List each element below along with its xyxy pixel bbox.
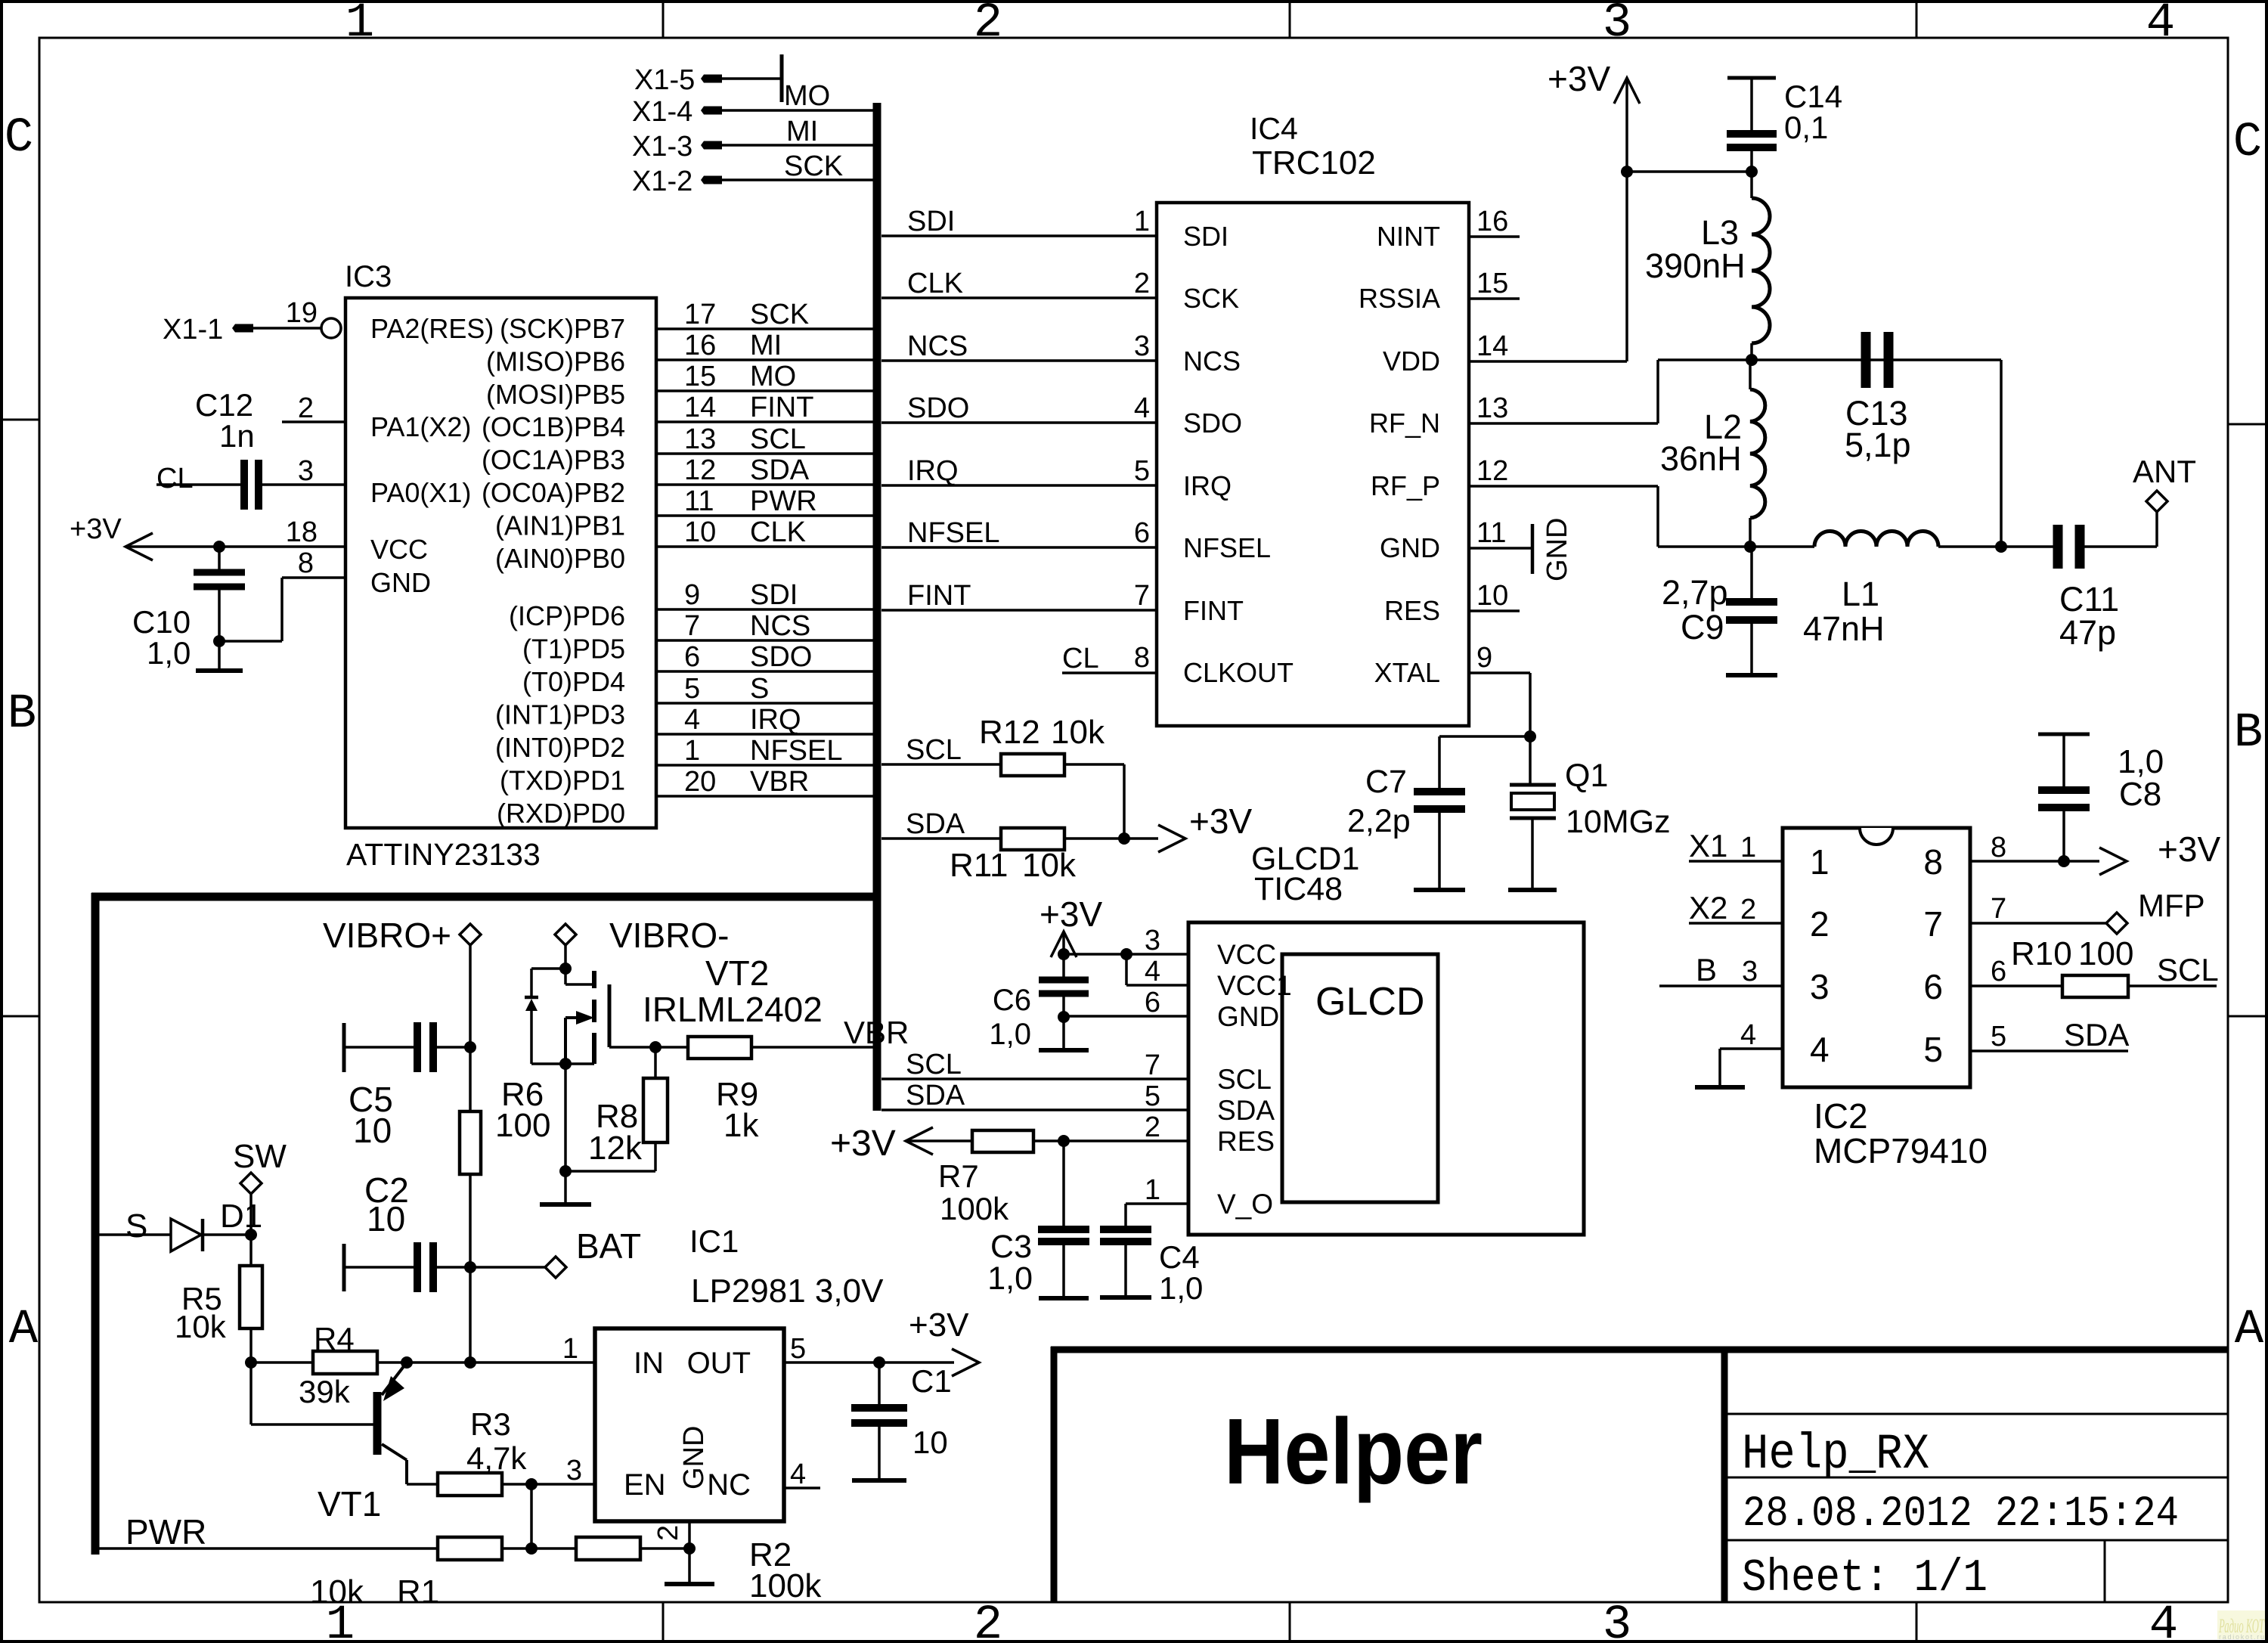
stub IC4 pin 16 NINT: [1469, 235, 1520, 238]
svg-text:4: 4: [1740, 1019, 1756, 1051]
svg-text:ANT: ANT: [2133, 454, 2196, 489]
transistor VT2 channel: [592, 971, 596, 988]
junction R12/R11 +3V: [1118, 832, 1130, 845]
wire X2 to IC2 pin 2: [1689, 922, 1783, 925]
svg-text:IC1: IC1: [689, 1223, 739, 1259]
wire +3V to R7: [906, 1139, 972, 1142]
svg-text:12: 12: [1476, 455, 1508, 487]
transistor VT1 collector: [382, 1444, 407, 1460]
wire IC3 pin 1 NFSEL to bus: [656, 764, 877, 767]
wire IC4 pin 9 XTAL to Q1: [1469, 671, 1530, 674]
svg-text:1: 1: [684, 735, 700, 767]
svg-text:1,0: 1,0: [147, 635, 191, 671]
svg-text:3: 3: [1145, 925, 1160, 956]
transistor VT1 base bar: [373, 1392, 382, 1455]
svg-text:4: 4: [1145, 956, 1160, 987]
svg-text:X2: X2: [1689, 890, 1727, 925]
resistor R11: [1001, 828, 1064, 850]
svg-text:PA2(RES): PA2(RES): [370, 313, 494, 344]
svg-text:SDA: SDA: [906, 1080, 965, 1111]
svg-text:NC: NC: [707, 1468, 751, 1502]
svg-text:(INT0)PD2: (INT0)PD2: [495, 732, 625, 763]
junction OUT/C1: [873, 1356, 885, 1369]
svg-text:(INT1)PD3: (INT1)PD3: [495, 699, 625, 730]
svg-text:B: B: [2234, 706, 2263, 761]
svg-text:C4: C4: [1159, 1239, 1200, 1275]
svg-text:NINT: NINT: [1377, 221, 1440, 252]
junction R2/IC1 GND: [683, 1542, 696, 1555]
svg-text:TRC102: TRC102: [1252, 144, 1376, 181]
svg-text:SDA: SDA: [750, 454, 810, 486]
wire to GLCD pin 4 VCC1: [1125, 954, 1128, 985]
svg-text:1: 1: [1810, 842, 1830, 882]
wire R11 to +3V node: [1064, 837, 1124, 840]
wire C12 to IC3 pin 3: [262, 483, 345, 486]
junction R5/R4/VT1 base: [245, 1356, 257, 1369]
wire IC4 pin 12 RF_P: [1469, 485, 1658, 488]
ground bar Q1: [1508, 888, 1557, 892]
svg-text:10k: 10k: [310, 1573, 364, 1610]
svg-text:(AIN0)PB0: (AIN0)PB0: [495, 543, 625, 574]
capacitor C9 top lead: [1750, 547, 1753, 598]
wire to ground (VT2): [564, 1171, 567, 1204]
svg-text:1,0: 1,0: [1159, 1270, 1203, 1306]
svg-text:+3V: +3V: [830, 1124, 896, 1164]
svg-text:10: 10: [684, 516, 716, 548]
border tick bottom 1-2: [662, 1602, 665, 1641]
svg-text:19: 19: [286, 297, 318, 329]
wire IC1 pin 5 OUT to +3V: [784, 1361, 954, 1364]
wire bus to GLCD pin 7 SCL: [881, 1077, 1188, 1080]
svg-text:SCK: SCK: [750, 299, 809, 330]
capacitor C4 plates: [1100, 1226, 1151, 1233]
svg-text:4,7k: 4,7k: [466, 1440, 527, 1476]
wire IC3 pin 8 to ground node: [282, 576, 345, 579]
svg-text:39k: 39k: [299, 1374, 351, 1409]
power +3V arrow (IC2): [2099, 848, 2127, 875]
ground bar IC2 pin 4: [1695, 1085, 1745, 1090]
svg-text:2,7p: 2,7p: [1662, 573, 1728, 612]
wire R7 to GLCD pin 2 RES: [1033, 1139, 1188, 1142]
wire IC3 pin 12 SDA to bus: [656, 483, 877, 486]
transistor VT2 body arrow: [565, 1016, 590, 1019]
wire to +3V arrow (IC2): [2064, 860, 2099, 863]
svg-text:4: 4: [2146, 0, 2175, 51]
svg-text:SDI: SDI: [750, 579, 798, 611]
svg-text:Helper: Helper: [1224, 1400, 1483, 1504]
wire to +3V arrow: [1124, 837, 1158, 840]
capacitor C9 plates: [1726, 598, 1777, 606]
connector ANT diamond: [2146, 491, 2167, 512]
svg-text:L1: L1: [1842, 575, 1879, 613]
svg-text:R11: R11: [950, 847, 1008, 884]
svg-text:R3: R3: [470, 1406, 511, 1442]
svg-text:Sheet: 1/1: Sheet: 1/1: [1742, 1553, 1988, 1604]
svg-text:3: 3: [1810, 967, 1830, 1006]
svg-text:SCK: SCK: [784, 150, 843, 182]
wire bus to IC4 pin 5 IRQ: [881, 484, 1157, 487]
svg-text:7: 7: [1923, 904, 1943, 944]
svg-text:R1: R1: [397, 1573, 439, 1610]
svg-text:FINT: FINT: [907, 580, 971, 612]
wire bus to IC4 pin 2 CLK: [881, 296, 1157, 299]
svg-text:C: C: [2233, 116, 2262, 170]
svg-text:(T0)PD4: (T0)PD4: [522, 666, 625, 697]
capacitor C8 open bar: [2038, 733, 2090, 736]
wire IC3 pin 10 CLK to bus: [656, 545, 877, 548]
svg-text:CLK: CLK: [907, 268, 963, 299]
svg-text:14: 14: [1476, 330, 1508, 362]
diode D1: [171, 1219, 201, 1251]
svg-text:RF_P: RF_P: [1371, 470, 1440, 501]
svg-text:1: 1: [562, 1333, 578, 1365]
junction +3V/C6/VCC: [1058, 948, 1070, 960]
svg-text:1,0: 1,0: [987, 1260, 1033, 1297]
connector pin X1-2: [701, 176, 722, 184]
svg-text:SDI: SDI: [1183, 221, 1228, 252]
resistor R9: [688, 1037, 751, 1059]
wire node to R9: [655, 1046, 688, 1049]
wire R8 bottom to source node: [654, 1142, 657, 1171]
wire L1 to C11: [1938, 545, 2053, 548]
svg-text:3: 3: [1603, 0, 1631, 51]
ground bar C7: [1414, 888, 1465, 892]
svg-text:IC2: IC2: [1814, 1096, 1868, 1136]
junction R1/R3 node: [525, 1542, 538, 1555]
wire EN node down to R1 node: [530, 1484, 533, 1548]
svg-text:4: 4: [2149, 1598, 2178, 1643]
display GLCD1 body: [1188, 922, 1584, 1235]
svg-text:5: 5: [1923, 1030, 1943, 1069]
svg-text:10: 10: [1476, 580, 1508, 612]
svg-text:(ICP)PD6: (ICP)PD6: [509, 600, 625, 631]
protection diode VD (VT2): [525, 996, 538, 1000]
svg-text:5,1p: 5,1p: [1845, 426, 1911, 464]
wire R5 to R4 node: [249, 1328, 253, 1362]
transistor VT2 drain lead: [565, 983, 594, 986]
junction C14/L3: [1746, 166, 1758, 178]
wire IC3 pin 4 IRQ to bus: [656, 733, 877, 736]
capacitor C12 plates: [240, 460, 248, 510]
title block row line 2: [1724, 1477, 2228, 1479]
wire bus to GLCD pin 5 SDA: [881, 1108, 1188, 1111]
svg-text:radiokot.ru: radiokot.ru: [2219, 1633, 2264, 1641]
svg-text:R12: R12: [979, 714, 1040, 751]
svg-text:Q1: Q1: [1565, 758, 1608, 794]
svg-text:PWR: PWR: [125, 1512, 206, 1552]
svg-text:VBR: VBR: [750, 766, 809, 798]
svg-text:7: 7: [1134, 580, 1150, 612]
wire C10 bottom lead: [218, 590, 221, 671]
wire R9 to VBR bus: [751, 1046, 877, 1049]
svg-text:11: 11: [1476, 517, 1506, 549]
transistor VT2 gate bar: [608, 984, 612, 1047]
svg-text:100k: 100k: [749, 1567, 822, 1604]
svg-text:NFSEL: NFSEL: [1183, 532, 1271, 563]
svg-text:B: B: [8, 687, 36, 742]
wire C3 bottom lead: [1062, 1245, 1065, 1298]
svg-text:IRQ: IRQ: [750, 704, 801, 736]
wire CL to IC4 pin 8 CLKOUT: [1062, 671, 1157, 674]
svg-text:X1: X1: [1689, 828, 1727, 863]
svg-text:(OC1B)PB4: (OC1B)PB4: [482, 411, 625, 442]
svg-text:+3V: +3V: [1189, 801, 1252, 841]
junction +3V/C10: [213, 541, 225, 553]
svg-text:1,0: 1,0: [989, 1018, 1031, 1051]
svg-text:+3V: +3V: [70, 513, 122, 545]
wire diode branch bottom: [531, 1062, 565, 1065]
wire gate to R8/R9 node: [609, 1046, 655, 1049]
title block row line 1: [1724, 1413, 2228, 1415]
inductor L2: [1750, 389, 1765, 518]
svg-text:RES: RES: [1384, 595, 1440, 626]
border tick bottom 3-4: [1916, 1602, 1918, 1641]
svg-text:RSSIA: RSSIA: [1359, 283, 1440, 314]
border tick right B-A: [2228, 1015, 2266, 1018]
svg-text:V_O: V_O: [1217, 1189, 1273, 1220]
wire C7 top: [1439, 735, 1530, 738]
junction C10/IC3 pin 8: [213, 635, 225, 647]
svg-text:NCS: NCS: [1183, 346, 1241, 377]
svg-text:IRQ: IRQ: [907, 455, 959, 487]
svg-text:B: B: [1696, 952, 1717, 987]
resistor R12: [1001, 754, 1064, 776]
power +3V arrow (IC1 out): [952, 1349, 979, 1376]
svg-text:2: 2: [1740, 894, 1756, 925]
connector VIBRO- diamond: [555, 924, 576, 945]
ground bar VT2: [540, 1202, 591, 1207]
power +3V arrow (pullups): [1158, 825, 1185, 852]
svg-text:(SCK)PB7: (SCK)PB7: [500, 313, 625, 344]
wire CL to C12: [156, 483, 240, 486]
svg-text:10k: 10k: [1051, 714, 1105, 751]
junction VT2 drain/protection diode: [559, 963, 572, 975]
svg-text:IRLML2402: IRLML2402: [643, 990, 823, 1029]
resistor R3: [438, 1473, 502, 1496]
wire C5 left lead: [344, 1046, 414, 1049]
svg-text:SDA: SDA: [1217, 1095, 1275, 1126]
svg-text:13: 13: [684, 423, 716, 455]
svg-text:VT2: VT2: [705, 953, 769, 993]
resistor R2 (series): [576, 1537, 640, 1560]
wire R8 top lead: [654, 1047, 657, 1078]
watermark: [2217, 1610, 2265, 1639]
capacitor C5 plates: [414, 1022, 421, 1072]
wire IC2 pin 4 to ground: [1720, 1047, 1783, 1050]
svg-text:+3V: +3V: [2158, 829, 2220, 869]
ground bar IC1 pin 2: [665, 1582, 714, 1586]
capacitor C1 plates: [851, 1404, 907, 1412]
svg-text:(T1)PD5: (T1)PD5: [522, 634, 625, 665]
svg-text:IRQ: IRQ: [1183, 470, 1232, 501]
title block divider: [1721, 1350, 1728, 1602]
capacitor C14 plates: [1727, 130, 1777, 138]
svg-text:X1-5: X1-5: [634, 64, 695, 96]
svg-text:36nH: 36nH: [1660, 439, 1742, 478]
svg-text:IC3: IC3: [345, 260, 392, 293]
bus main vertical: [873, 103, 881, 1111]
svg-text:1n: 1n: [219, 418, 255, 454]
junction L3/L2/RF_N: [1746, 354, 1758, 366]
svg-text:CL: CL: [156, 463, 194, 494]
svg-text:C6: C6: [993, 984, 1031, 1017]
svg-text:MFP: MFP: [2138, 888, 2205, 923]
wire C2 node down to IN line: [469, 1267, 472, 1362]
wire VIBRO- down to VT2 drain: [564, 945, 567, 984]
wire R3 to EN node: [502, 1483, 531, 1486]
svg-text:5: 5: [1991, 1021, 2006, 1052]
capacitor C6 top lead: [1062, 954, 1065, 977]
connector pin X1-3: [701, 141, 722, 150]
svg-text:4: 4: [684, 704, 700, 736]
svg-text:SCL: SCL: [1217, 1064, 1272, 1095]
wire IC2 pin 8 to +3V: [1970, 860, 2064, 863]
svg-text:(MISO)PB6: (MISO)PB6: [486, 346, 625, 377]
border tick left C-B: [2, 419, 39, 421]
svg-text:2,2p: 2,2p: [1347, 803, 1411, 839]
capacitor C11 plates: [2053, 525, 2063, 569]
svg-text:NFSEL: NFSEL: [907, 517, 999, 549]
wire C11 to ANT: [2084, 545, 2157, 548]
wire SW to node: [249, 1194, 253, 1235]
junction C6/GLCD pin 6 GND: [1058, 1011, 1070, 1023]
stub IC1 pin 4 NC: [784, 1486, 820, 1490]
title block top border: [1051, 1347, 2228, 1353]
wire +3V to IC3 pin 18: [125, 545, 345, 548]
svg-text:S: S: [125, 1207, 147, 1245]
wire R6 to C2 node: [469, 1174, 472, 1267]
svg-text:5: 5: [1134, 455, 1150, 487]
power section boundary vertical: [91, 893, 100, 1555]
IC4 TRC102 body: [1157, 203, 1469, 726]
wire R10 to SCL: [2128, 984, 2217, 987]
svg-text:6: 6: [1134, 517, 1150, 549]
svg-text:47nH: 47nH: [1803, 609, 1885, 648]
junction R7/C3: [1058, 1135, 1070, 1147]
svg-text:10: 10: [912, 1424, 948, 1460]
transistor VT1 emitter: [382, 1362, 407, 1395]
junction gate/R8/R9: [649, 1041, 661, 1053]
svg-text:VCC: VCC: [1217, 939, 1276, 970]
resistor R6 (vertical): [460, 1111, 481, 1174]
wire to IC1 pin 1 IN: [470, 1361, 595, 1364]
wire IC3 pin 14 FINT to bus: [656, 420, 877, 423]
svg-text:1,0: 1,0: [2118, 743, 2164, 780]
svg-text:16: 16: [1476, 206, 1508, 237]
svg-text:1: 1: [1740, 832, 1756, 863]
wire node to R6: [469, 1047, 472, 1111]
svg-text:MI: MI: [786, 116, 818, 147]
wire bus to IC4 pin 6 NFSEL: [881, 546, 1157, 549]
svg-text:X1-2: X1-2: [632, 166, 692, 197]
wire BAT node: [470, 1266, 546, 1269]
svg-text:A: A: [9, 1303, 39, 1357]
svg-text:SDA: SDA: [2064, 1017, 2129, 1052]
junction D1/SW/R5: [245, 1229, 257, 1241]
wire bus to IC4 pin 1 SDI: [881, 234, 1157, 237]
wire bus to IC4 pin 7 FINT: [881, 609, 1157, 612]
svg-text:2: 2: [1810, 904, 1830, 944]
capacitor C5 open bar: [342, 1023, 346, 1072]
wire +3V riser: [1625, 79, 1628, 361]
svg-text:12k: 12k: [588, 1130, 643, 1167]
wire C2 to node: [437, 1266, 470, 1269]
wire IC1 pin 2 GND: [688, 1521, 691, 1584]
svg-text:6: 6: [684, 641, 700, 673]
svg-text:IC4: IC4: [1250, 111, 1298, 146]
capacitor C14 top lead: [1750, 78, 1753, 130]
wire R2 to IC1 pin 2: [640, 1547, 689, 1550]
connector BAT diamond: [545, 1257, 566, 1278]
border tick right C-B: [2228, 423, 2266, 426]
svg-text:7: 7: [684, 610, 700, 642]
wire D1 to SW node: [203, 1233, 251, 1236]
svg-text:GND: GND: [1217, 1001, 1279, 1032]
svg-text:CL: CL: [1062, 643, 1099, 674]
ground bar C3: [1039, 1296, 1089, 1300]
capacitor C8 bottom lead: [2062, 811, 2065, 861]
svg-text:0,1: 0,1: [1784, 110, 1828, 145]
svg-text:13: 13: [1476, 392, 1508, 424]
display GLCD1 screen: [1282, 954, 1438, 1202]
wire IC2 pin 7 to MFP: [1970, 922, 2107, 925]
wire R4 to emitter node: [377, 1361, 407, 1364]
wire node to R5: [249, 1235, 253, 1266]
svg-text:(MOSI)PB5: (MOSI)PB5: [486, 379, 625, 410]
no-connect stub X1-5: [780, 54, 784, 102]
svg-text:NCS: NCS: [750, 610, 810, 642]
svg-text:(OC0A)PB2: (OC0A)PB2: [482, 477, 625, 508]
wire IC3 pin 6 SDO to bus: [656, 670, 877, 673]
svg-text:SCL: SCL: [906, 734, 962, 766]
wire IC3 pin 15 MO to bus: [656, 389, 877, 392]
capacitor C6 plates: [1039, 977, 1089, 984]
svg-text:10: 10: [353, 1111, 392, 1150]
stub IC4 pin 15 RSSIA: [1469, 297, 1520, 300]
ground bar C6: [1039, 1048, 1089, 1052]
connector VIBRO+ diamond: [460, 924, 481, 945]
ground bar C10: [196, 668, 243, 673]
svg-text:5: 5: [1145, 1080, 1160, 1112]
resistor R1: [438, 1537, 502, 1560]
svg-text:10: 10: [367, 1199, 405, 1238]
title block left border: [1051, 1347, 1058, 1602]
svg-text:7: 7: [1991, 893, 2006, 925]
svg-text:(OC1A)PB3: (OC1A)PB3: [482, 445, 625, 476]
svg-text:RF_N: RF_N: [1369, 408, 1440, 439]
svg-text:5: 5: [790, 1333, 806, 1365]
wire C5 to VIBRO+ node: [437, 1046, 470, 1049]
svg-text:CLK: CLK: [750, 516, 806, 548]
svg-text:OUT: OUT: [687, 1347, 751, 1380]
svg-text:PA1(X2): PA1(X2): [370, 411, 471, 442]
power section boundary horizontal: [91, 893, 881, 901]
svg-text:+3V: +3V: [1039, 894, 1102, 934]
ground bar C9: [1726, 673, 1777, 677]
svg-text:SCL: SCL: [906, 1049, 962, 1080]
svg-text:2: 2: [1134, 268, 1150, 299]
svg-text:C7: C7: [1365, 764, 1407, 800]
wire S to D1: [99, 1233, 171, 1236]
svg-text:SDO: SDO: [907, 392, 969, 424]
svg-text:1: 1: [345, 0, 374, 51]
svg-text:SCL: SCL: [750, 423, 806, 455]
wire C2 left lead: [344, 1266, 414, 1269]
svg-text:15: 15: [684, 361, 716, 392]
title block row line 3: [1724, 1539, 2228, 1542]
svg-text:PWR: PWR: [750, 485, 817, 517]
connector MFP diamond: [2106, 913, 2127, 934]
